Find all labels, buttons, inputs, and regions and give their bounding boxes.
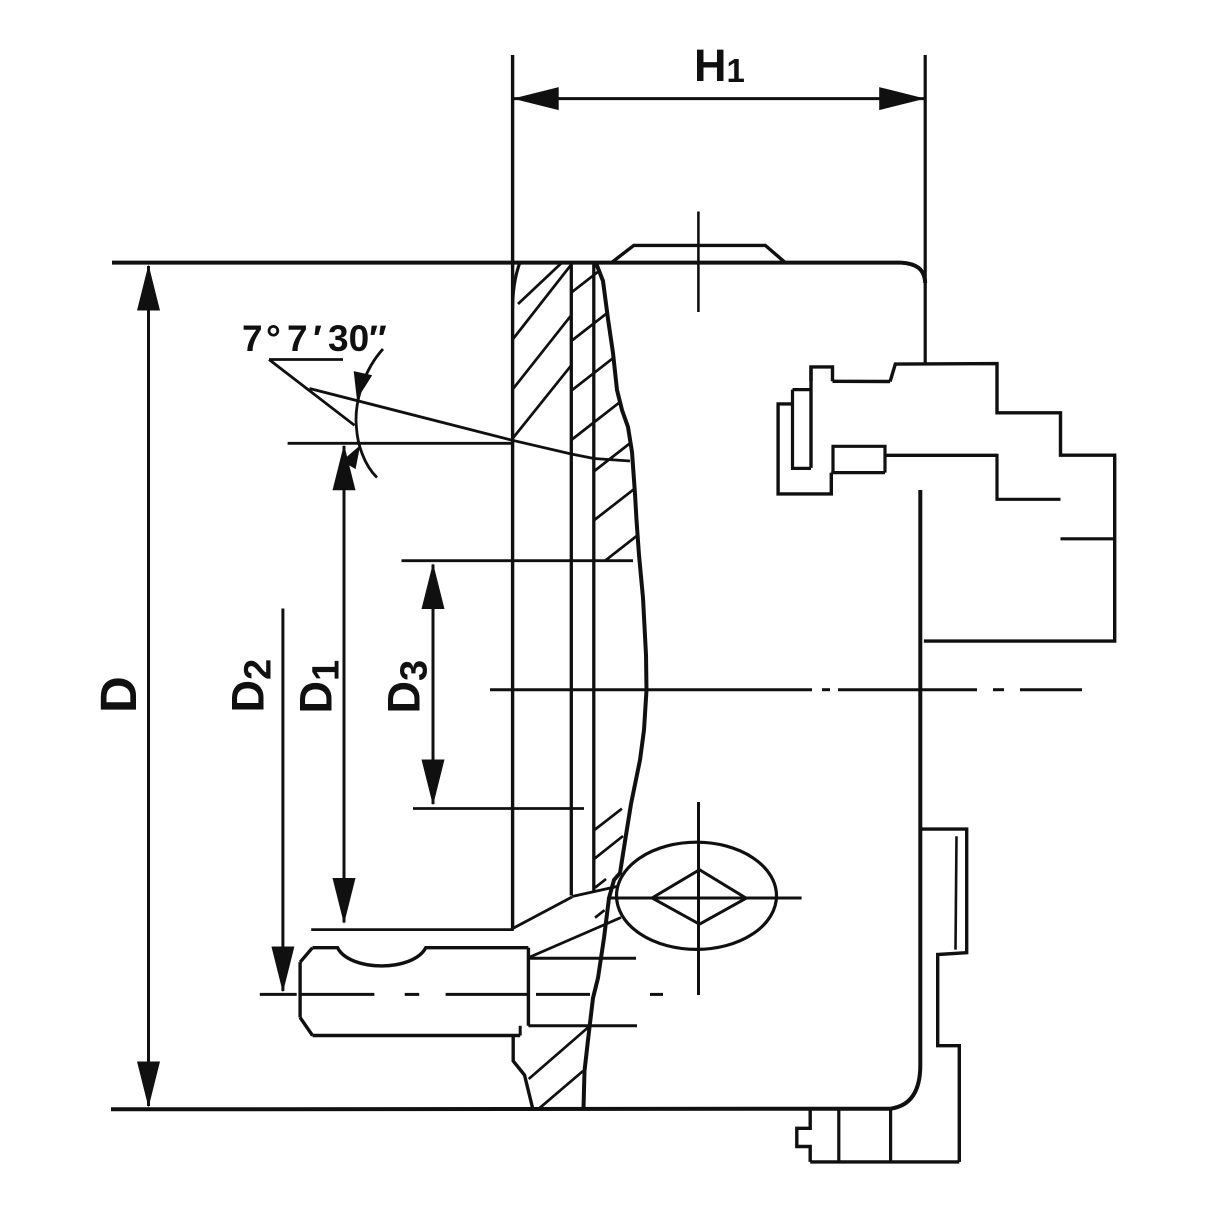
bore step line left bbox=[570, 263, 573, 896]
jaw step block left vertical bar bbox=[793, 390, 812, 469]
D dimension line with arrowheads bbox=[137, 265, 160, 1108]
socket horizontal centerline bbox=[608, 897, 802, 900]
rear boss inner line bbox=[956, 836, 957, 949]
main axis centerline bbox=[490, 688, 1082, 691]
D3 dimension line with arrowheads bbox=[422, 563, 445, 806]
pinion seat cone line lower bbox=[529, 918, 621, 958]
D1 dimension line with arrowheads bbox=[333, 444, 356, 924]
hatching flange strip bbox=[513, 264, 572, 439]
hatching hub lower strip bbox=[594, 809, 623, 918]
pinion seat cone line upper bbox=[513, 897, 572, 929]
H1 right extension line bbox=[924, 55, 927, 364]
section left edge top fillet bbox=[513, 264, 520, 309]
pinion bottom edge bbox=[313, 1034, 521, 1037]
jaw internal step line bbox=[1061, 537, 1115, 540]
H1 dimension label bbox=[694, 40, 745, 91]
D1 top extension line bbox=[288, 442, 513, 445]
angle arc arrowhead lower bbox=[342, 445, 360, 469]
jaw front face step bbox=[997, 454, 1061, 500]
jaw upper outline bbox=[833, 364, 1115, 641]
jaw outer step block bbox=[778, 404, 831, 494]
socket square diamond bbox=[652, 870, 746, 925]
H1 dimension line with arrowheads bbox=[513, 87, 926, 110]
angle leader horizontal bbox=[269, 358, 343, 361]
hatching bottom wedge bbox=[529, 1028, 588, 1109]
pinion top left chamfer bbox=[300, 948, 312, 963]
pinion top edge with notch bbox=[313, 948, 529, 966]
pinion left edge bbox=[298, 962, 301, 1017]
cap screw centerline tick bbox=[697, 212, 700, 313]
D3 dimension label bbox=[379, 660, 436, 714]
pinion bore bottom step line bbox=[572, 886, 618, 896]
pinion bottom right step bbox=[519, 1026, 522, 1036]
jaw guideway taper line bbox=[310, 389, 631, 462]
jaw left edge bbox=[809, 367, 812, 468]
angle label 7deg 7min 30sec bbox=[242, 318, 387, 359]
D dimension label bbox=[90, 676, 147, 713]
rear spigot bottom bbox=[810, 1160, 959, 1163]
body top right rounded corner bbox=[901, 263, 925, 283]
jaw top tab bbox=[811, 367, 833, 381]
D1 dimension label bbox=[291, 660, 348, 714]
jaw bottom edge bbox=[885, 454, 997, 457]
body top edge bbox=[112, 261, 901, 265]
pinion centerline bbox=[260, 993, 663, 996]
cap nut trapezoid on top face bbox=[612, 245, 785, 262]
angle leader slanted bbox=[269, 360, 355, 426]
body front face right edge with bottom rounded corner bbox=[891, 490, 921, 1109]
body bottom edge / D extension line bbox=[111, 1107, 891, 1112]
angle dimension arc bbox=[356, 349, 383, 478]
pinion shaft top edge bbox=[528, 957, 636, 960]
D3 top extension line / slot bottom edge bbox=[402, 559, 634, 562]
socket vertical centerline bbox=[697, 802, 700, 995]
rear spigot left side with notch bbox=[797, 1109, 810, 1162]
svg-text:D: D bbox=[90, 676, 147, 713]
jaw nut block bbox=[831, 446, 885, 472]
H1 left extension line / body section left edge bbox=[511, 55, 514, 930]
rear spigot inner vertical 1 bbox=[837, 1109, 840, 1162]
angle arc arrowhead upper bbox=[354, 371, 373, 399]
section curved right edge bbox=[584, 263, 647, 1109]
D2 dimension label bbox=[223, 659, 280, 713]
rear boss step upper bbox=[920, 829, 966, 1162]
pinion bottom left chamfer bbox=[300, 1018, 312, 1036]
pinion right edge bbox=[527, 948, 530, 1026]
D1 bottom extension line bbox=[311, 928, 514, 931]
bore step line right bbox=[592, 263, 595, 891]
body edge below pinion bbox=[513, 1036, 533, 1109]
pinion shaft bottom edge bbox=[528, 1024, 637, 1027]
D2 dimension line with bottom arrowhead bbox=[271, 609, 294, 993]
rear spigot inner vertical 2 bbox=[889, 1109, 892, 1162]
socket ellipse bbox=[617, 842, 777, 949]
hatching hub upper strips bbox=[571, 271, 637, 561]
D3 bottom extension line bbox=[413, 807, 584, 810]
